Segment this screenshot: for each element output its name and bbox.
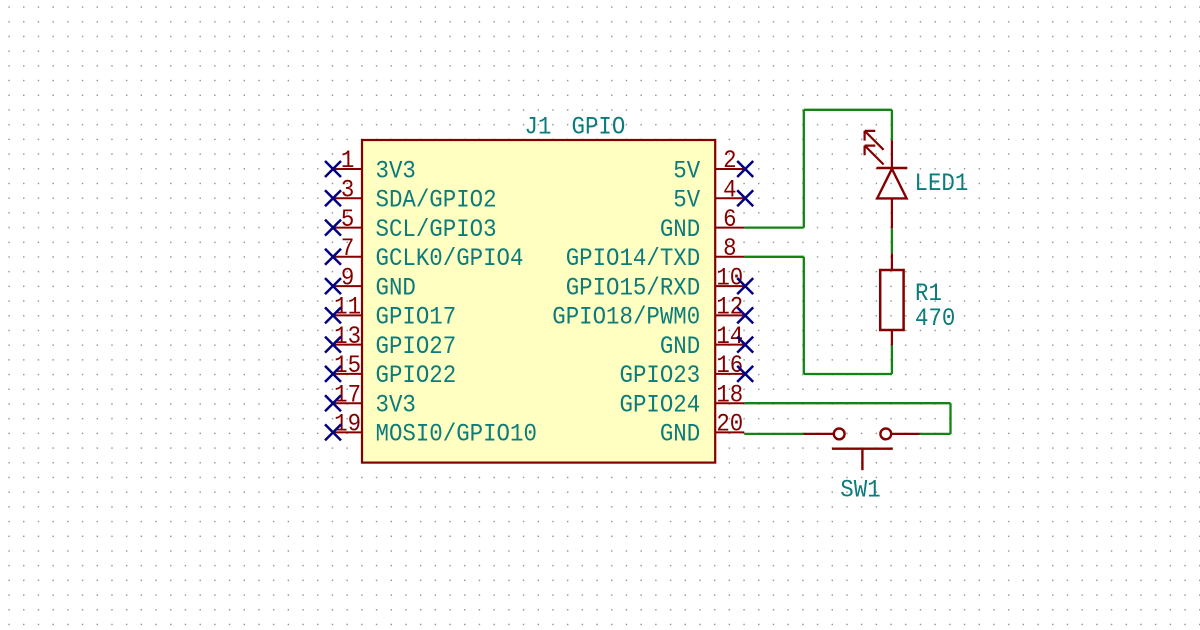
svg-text:470: 470 [915,304,955,333]
svg-text:3V3: 3V3 [376,156,416,185]
wire vertical down from pin8 [803,257,805,374]
wire down to LED cathode pin [891,110,893,141]
no-connect X pin 12 [737,307,753,323]
svg-text:11: 11 [334,293,361,322]
svg-text:5V: 5V [673,186,700,215]
wire pin18 GPIO24 to corner [744,402,950,404]
pin 5 (SCL/GPIO3) [333,205,497,244]
svg-text:20: 20 [716,410,743,439]
pin 18 (GPIO24) [620,380,745,419]
svg-text:SCL/GPIO3: SCL/GPIO3 [376,215,497,244]
svg-text:10: 10 [716,263,743,292]
no-connect X pin 17 [325,395,341,411]
svg-text:SDA/GPIO2: SDA/GPIO2 [376,186,497,215]
pin 15 (GPIO22) [333,351,456,390]
no-connect X pin 2 [737,161,753,177]
svg-text:GPIO23: GPIO23 [620,361,701,390]
svg-text:16: 16 [716,351,743,380]
svg-text:5: 5 [341,205,354,234]
no-connect X pin 5 [325,220,341,236]
svg-text:LED1: LED1 [915,169,969,198]
resistor R1 [880,253,903,345]
svg-text:13: 13 [334,322,361,351]
pin 10 (GPIO15/RXD) [566,263,745,302]
wire top horizontal to LED [804,109,892,111]
svg-text:3: 3 [341,176,354,205]
svg-text:4: 4 [723,176,736,205]
svg-text:GPIO: GPIO [572,112,626,141]
pin 2 (5V) [673,146,744,185]
wire pin8 TXD to corner [744,256,804,258]
connector J1 body [362,140,715,463]
svg-text:9: 9 [341,263,354,292]
no-connect X pin 13 [325,337,341,353]
wire vertical up from pin6 [803,110,805,228]
pin 1 (3V3) [333,146,416,185]
pin 8 (GPIO14/TXD) [566,234,745,273]
pin 9 (GND) [333,263,416,302]
wire LED anode to R1 [891,228,893,253]
wire to SW1 right pin [920,433,951,435]
no-connect X pin 3 [325,190,341,206]
svg-text:GPIO27: GPIO27 [376,332,457,361]
svg-text:GND: GND [660,332,700,361]
no-connect X pin 9 [325,278,341,294]
svg-text:GPIO14/TXD: GPIO14/TXD [566,244,701,273]
wire up to R1 bottom pin [891,345,893,374]
svg-text:18: 18 [716,380,743,409]
svg-text:14: 14 [716,322,743,351]
no-connect X pin 11 [325,307,341,323]
wire pin20 GND to SW1 left pin [744,433,803,435]
pin 17 (3V3) [333,380,416,419]
svg-text:8: 8 [723,234,736,263]
svg-text:1: 1 [341,146,354,175]
wire bottom horizontal to R1 [804,373,892,375]
svg-text:GPIO22: GPIO22 [376,361,457,390]
pin 12 (GPIO18/PWM0) [552,293,744,332]
pin 7 (GCLK0/GPIO4) [333,234,523,273]
pin 3 (SDA/GPIO2) [333,176,497,215]
wire vertical down to SW1 [949,403,951,434]
pin 13 (GPIO27) [333,322,456,361]
no-connect X pin 4 [737,190,753,206]
no-connect X pin 1 [325,161,341,177]
pin 11 (GPIO17) [333,293,456,332]
svg-text:GCLK0/GPIO4: GCLK0/GPIO4 [376,244,524,273]
pin 14 (GND) [660,322,744,361]
svg-text:17: 17 [334,380,361,409]
svg-text:15: 15 [334,351,361,380]
no-connect X pin 14 [737,337,753,353]
pin 16 (GPIO23) [620,351,745,390]
svg-text:J1: J1 [525,112,552,141]
svg-text:5V: 5V [673,156,700,185]
svg-text:GND: GND [376,273,416,302]
no-connect X pin 7 [325,249,341,265]
svg-text:GND: GND [660,215,700,244]
svg-text:GPIO18/PWM0: GPIO18/PWM0 [552,303,700,332]
svg-text:19: 19 [334,410,361,439]
svg-text:SW1: SW1 [840,475,880,504]
switch SW1 [804,429,920,471]
svg-text:6: 6 [723,205,736,234]
svg-text:7: 7 [341,234,354,263]
svg-text:MOSI0/GPIO10: MOSI0/GPIO10 [376,420,537,449]
pin 6 (GND) [660,205,744,244]
svg-text:GND: GND [660,420,700,449]
LED LED1 [865,131,908,228]
svg-text:3V3: 3V3 [376,391,416,420]
pin 19 (MOSI0/GPIO10) [333,410,537,449]
pin 4 (5V) [673,176,744,215]
pin 20 (GND) [660,410,744,449]
no-connect X pin 15 [325,366,341,382]
no-connect X pin 16 [737,366,753,382]
svg-text:GPIO17: GPIO17 [376,303,457,332]
svg-text:12: 12 [716,293,743,322]
svg-text:GPIO15/RXD: GPIO15/RXD [566,273,701,302]
no-connect X pin 10 [737,278,753,294]
wire pin6 GND to corner [744,226,804,228]
svg-text:2: 2 [723,146,736,175]
no-connect X pin 19 [325,424,341,440]
svg-text:GPIO24: GPIO24 [620,391,701,420]
